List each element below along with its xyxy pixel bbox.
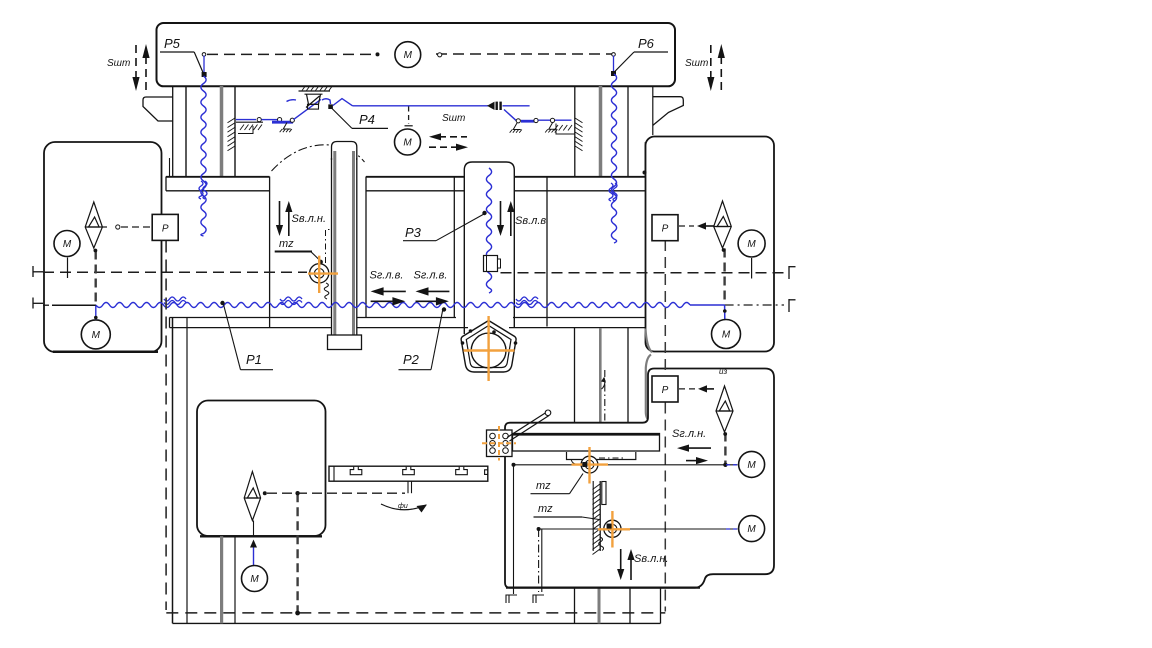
wave line right end dashdot	[725, 304, 784, 306]
arrow P3 up	[510, 210, 512, 236]
arrow lower down	[620, 549, 622, 571]
crosshair pentagon	[464, 316, 515, 381]
shaft body	[331, 158, 333, 335]
arrow sgl right	[686, 460, 698, 462]
svg-text:Sв.л.в: Sв.л.в	[515, 215, 546, 227]
node right of diamond	[263, 491, 267, 495]
right column pair	[574, 86, 576, 177]
motor M5 gearbox	[242, 566, 268, 592]
mid columns lower	[574, 588, 576, 624]
junction square P6	[611, 71, 616, 76]
arrow Sшт left up	[145, 56, 147, 90]
hose blue in P3 column	[486, 168, 491, 293]
arrow gl 1	[382, 290, 406, 292]
bed bottom line	[173, 622, 661, 624]
drop dashed P right upper	[664, 240, 666, 374]
wave right end mark	[788, 299, 790, 312]
pentagon wheel	[461, 321, 516, 373]
bed left edge	[172, 318, 174, 624]
flow diamond right	[714, 201, 732, 248]
columns below gearbox	[220, 536, 223, 623]
anchor under pivot d	[513, 123, 521, 130]
shaft foot	[328, 335, 362, 350]
svg-text:mz: mz	[536, 480, 551, 492]
slide bar	[513, 434, 660, 452]
wire blue seg2	[262, 119, 278, 121]
centerline right end	[788, 266, 790, 279]
svg-text:P4: P4	[359, 112, 375, 127]
wire diamond-P left	[102, 226, 107, 228]
gearbox bottom thick	[200, 535, 322, 537]
mid dash-dot axis	[604, 370, 606, 427]
svg-text:Sг.л.в.: Sг.л.в.	[370, 270, 404, 282]
svg-text:М: М	[722, 330, 731, 341]
dash-dot axis small	[326, 230, 333, 264]
P3 column outer	[453, 177, 455, 318]
crosshair lower worm	[598, 511, 630, 548]
wire M3 to centerline	[67, 258, 69, 279]
crosshair upper worm	[572, 447, 609, 484]
wire P6 blue drop	[613, 56, 615, 72]
node on beam centerline right	[438, 53, 442, 57]
flow diamond left	[85, 202, 102, 248]
arrow mid right	[429, 146, 458, 148]
anchor under pivot b	[283, 123, 291, 130]
svg-text:mz: mz	[279, 238, 294, 250]
arrow Sшт left down	[135, 45, 137, 79]
hydraulic level wave	[96, 303, 690, 308]
bed top line	[169, 318, 171, 328]
svg-text:P3: P3	[405, 225, 422, 240]
hose blue wavy left (from P5)	[201, 76, 206, 236]
node P6 tap	[612, 53, 616, 57]
hose blue wavy right (from P6)	[611, 74, 616, 243]
diamond tail	[253, 521, 255, 537]
node P5 tap	[202, 53, 206, 57]
mount trapezoid	[307, 94, 321, 104]
right flange	[653, 97, 684, 126]
svg-text:Р: Р	[162, 223, 169, 234]
junction square P5	[202, 72, 207, 77]
svg-text:Sв.л.н.: Sв.л.н.	[292, 213, 327, 225]
arrow lower up	[630, 558, 632, 580]
motor M8	[739, 451, 765, 477]
platform bottom line seg1	[366, 190, 464, 192]
bearing circle center	[310, 264, 329, 283]
wire blue diagonal up	[294, 99, 321, 119]
pivot f	[550, 118, 554, 122]
left flange	[143, 97, 173, 121]
arrow P-diamond right	[704, 225, 714, 227]
svg-text:Sшт: Sшт	[107, 58, 130, 69]
wire blue after valve	[503, 105, 530, 107]
motor M7 right low	[712, 320, 741, 349]
motor M3 left	[54, 231, 80, 257]
left body panel	[44, 142, 162, 352]
gearbox box	[197, 401, 326, 537]
motor M6 right	[738, 230, 765, 257]
beam (upper slide) outline	[157, 23, 676, 86]
wire blue over mount	[322, 99, 331, 104]
centerline lower left stub	[43, 304, 49, 306]
svg-text:mz: mz	[538, 503, 553, 515]
svg-text:Sшт: Sшт	[685, 58, 708, 69]
svg-text:М: М	[403, 138, 412, 149]
arrow mid left	[439, 136, 467, 138]
motor M2 (P4 drive)	[395, 129, 421, 155]
arrow center up	[288, 210, 290, 236]
feet brackets	[506, 595, 517, 603]
pivot b	[278, 118, 282, 122]
anchor hatched wall left	[228, 118, 236, 123]
dashdot stub upper worm	[599, 457, 624, 459]
P box right	[652, 215, 678, 241]
wire blue long run	[353, 105, 489, 107]
arrow gl 2	[427, 290, 450, 292]
P box lower right	[652, 376, 678, 402]
pinion axis marks	[407, 482, 409, 494]
platform top line seg0	[166, 176, 270, 178]
motor M1 (beam drive)	[395, 42, 421, 68]
right body panel	[646, 137, 775, 352]
break mark on right hose	[609, 183, 613, 201]
svg-text:М: М	[250, 574, 259, 585]
wire P5 blue drop	[203, 56, 205, 73]
svg-text:P6: P6	[638, 36, 655, 51]
wave straight right	[690, 304, 725, 306]
node P3 tap	[482, 211, 486, 215]
break mark wave 2	[516, 297, 538, 301]
wire blue right diagonal	[504, 110, 517, 122]
dash link gearbox	[267, 492, 405, 494]
drop dashed from diamond left	[94, 251, 96, 305]
support line from upper shaft	[513, 465, 515, 594]
mid columns below bed	[574, 328, 576, 434]
bottom-right panel outline	[505, 369, 774, 588]
panel bottom thick seg	[506, 586, 700, 588]
flow diamond gearbox	[244, 472, 260, 521]
arrow P-diamond lower	[705, 388, 714, 390]
svg-text:М: М	[747, 239, 756, 250]
svg-text:Р: Р	[662, 385, 669, 396]
pivot d	[516, 119, 520, 123]
spring under bearing	[324, 283, 329, 299]
arrow Sшт right down	[710, 45, 712, 79]
platform bottom line seg2	[514, 190, 646, 192]
rack bar (table with T-slots)	[329, 466, 488, 481]
svg-text:из: из	[719, 367, 727, 376]
flow diamond lower right	[716, 386, 733, 432]
anchor ceiling center	[299, 90, 331, 92]
anchor hatched wall right	[575, 118, 583, 123]
dash drop to M2	[408, 107, 410, 125]
junction square P4	[328, 104, 333, 109]
pivot e	[534, 118, 538, 122]
svg-text:М: М	[747, 460, 756, 471]
wire blue lever-left	[236, 119, 256, 121]
P3 cap	[464, 162, 514, 334]
wire blue to wall	[538, 119, 571, 121]
arrow center down	[279, 201, 281, 227]
svg-text:Sг.л.н.: Sг.л.н.	[672, 428, 706, 440]
platform top line seg2	[514, 176, 646, 178]
beam centerline (dashed)	[207, 53, 378, 55]
drop dashed diamond lower	[724, 433, 726, 464]
dashdot drop left	[538, 529, 540, 592]
platform bottom line seg0	[166, 190, 270, 192]
bed right edge	[646, 329, 653, 353]
wire M4 stem	[95, 306, 97, 320]
link thick blue right	[521, 120, 534, 123]
wire blue to long run	[333, 99, 353, 106]
centerline upper left end	[32, 266, 34, 277]
lower worm bearing	[604, 520, 621, 537]
shaft line upper	[512, 464, 737, 466]
nut on P3 rod	[484, 256, 498, 272]
node wave P2	[442, 307, 446, 311]
centerline lower left end	[32, 298, 34, 309]
svg-text:М: М	[92, 330, 101, 341]
left column pair	[172, 86, 174, 177]
arrow sgl left	[687, 447, 711, 449]
valve on blue run	[487, 102, 495, 110]
svg-text:М: М	[747, 524, 756, 535]
svg-text:P2: P2	[403, 352, 420, 367]
gib strip	[602, 482, 606, 505]
pivot a	[257, 118, 261, 122]
svg-text:P5: P5	[164, 36, 181, 51]
bearing block orange cross	[482, 426, 516, 461]
arrow P3 down	[500, 201, 502, 227]
lower slide	[567, 452, 636, 460]
upper worm bearing	[581, 456, 598, 473]
svg-text:М: М	[63, 239, 72, 250]
arrow gl 3	[371, 300, 395, 302]
drop dashed gearbox	[296, 493, 298, 611]
drop dashed diamond right	[723, 249, 725, 305]
wire M6 stem	[751, 258, 753, 279]
shaft cap	[332, 142, 357, 161]
node on beam centerline left	[376, 52, 380, 56]
break mark on left hose	[199, 181, 203, 199]
dome base right	[365, 177, 367, 318]
platform left cap	[165, 177, 167, 191]
break mark wave 0	[164, 297, 186, 301]
bearing block	[487, 430, 513, 457]
dome base left	[269, 177, 271, 328]
svg-text:фи: фи	[398, 503, 408, 510]
rotation arrow	[381, 504, 426, 510]
link thick blue	[272, 121, 293, 124]
wire blue gearbox-M	[253, 544, 255, 565]
centerline right (dash)	[501, 272, 785, 274]
platform top line seg1	[366, 176, 464, 178]
motor M9	[739, 516, 765, 542]
bed bottom dashed	[166, 612, 665, 614]
svg-text:Р: Р	[662, 224, 669, 235]
arrow Sшт right up	[720, 56, 722, 90]
pivot c	[290, 118, 294, 122]
centerline upper (dash)	[43, 271, 307, 273]
P box left	[152, 214, 178, 240]
svg-text:М: М	[404, 50, 413, 61]
break mark wave 1	[280, 297, 302, 301]
svg-text:Sв.л.н.: Sв.л.н.	[634, 553, 669, 565]
lever handle	[507, 413, 546, 438]
drop dashed P right lower	[664, 403, 666, 612]
svg-text:Sг.л.в.: Sг.л.в.	[414, 270, 448, 282]
wire blue drop right	[724, 305, 726, 320]
dome arc (dash-dot)	[272, 145, 365, 171]
bed left dashed axis	[165, 241, 167, 611]
shaft line lower	[539, 528, 738, 530]
crosshair center	[308, 256, 338, 293]
motor M4 left low	[81, 320, 110, 349]
bed top line 2	[170, 327, 333, 329]
hatched rail	[592, 481, 594, 551]
node wave P1	[220, 301, 224, 305]
junction dot mz	[318, 260, 323, 265]
wire blue upper hook	[287, 100, 297, 102]
rail spring	[599, 537, 604, 551]
svg-text:P1: P1	[246, 352, 262, 367]
svg-text:Sшт: Sшт	[442, 113, 465, 124]
anchor under pivot f	[549, 123, 557, 130]
arrow gl 4	[416, 300, 438, 302]
